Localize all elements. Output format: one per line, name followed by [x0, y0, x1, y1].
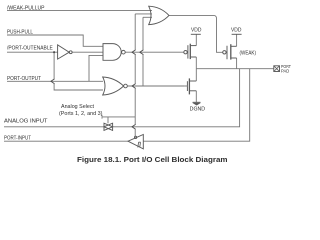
nor gate U3 output bubble — [124, 84, 128, 88]
svg-text:VDD: VDD — [231, 28, 242, 34]
node bubble at schmitt input from V1 — [134, 136, 136, 138]
wire weak PMOS Q2 drain to pad rail — [236, 58, 238, 69]
schmitt buffer U5 hysteresis glyph — [138, 142, 141, 147]
hop chevron V1 over NAND output — [132, 50, 136, 55]
analog switch S1 left triangle — [104, 123, 113, 130]
wire /PORT-OUTENABLE to inverter input — [7, 51, 58, 53]
transistor Q2 gate bubble — [223, 51, 226, 54]
hop chevron outenable-branch over PORT-OUTPUT — [51, 79, 55, 84]
transistor Q3 channel bar — [188, 78, 190, 94]
wire PMOS Q1 drain to pad rail — [195, 57, 197, 69]
transistor Q2 channel bar — [230, 44, 232, 59]
or gate U4 body — [149, 6, 169, 24]
wire PUSH-PULL to NAND input 1 — [7, 35, 103, 46]
wire node pad-feedback vertical V1 to OR gate middle input — [135, 13, 152, 15]
wire pad feedback B down to analog line — [113, 69, 240, 127]
wire NAND output to PMOS gate — [125, 51, 184, 53]
wire PORT-OUTPUT branch up to NAND input 3 — [89, 55, 103, 81]
transistor Q2 drain stub — [231, 57, 237, 59]
wire pad feedback A down to schmitt input — [143, 69, 249, 142]
transistor Q1 drain stub — [190, 56, 196, 58]
svg-text:PORT-OUTPUT: PORT-OUTPUT — [7, 76, 41, 82]
svg-text:/PORT-OUTENABLE: /PORT-OUTENABLE — [7, 45, 53, 51]
nand gate U2 body — [103, 44, 121, 61]
schmitt buffer U5 triangle — [128, 135, 143, 149]
wire schmitt output to PORT-INPUT — [4, 140, 128, 142]
ground DGND bar — [193, 101, 201, 103]
power VDD rail of Q2 — [232, 33, 242, 35]
transistor Q2 gate bar — [226, 46, 228, 59]
wire NMOS Q3 source down to DGND — [195, 91, 197, 103]
transistor Q1 gate bubble — [184, 51, 187, 54]
hop chevron V1 over NOR output — [132, 84, 136, 89]
svg-text:VDD: VDD — [191, 28, 202, 34]
pad symbol X — [274, 66, 280, 72]
transistor Q3 gate bar — [186, 81, 188, 91]
analog switch S1 right triangle — [104, 123, 113, 130]
svg-text:DGND: DGND — [190, 106, 206, 112]
svg-text:/WEAK-PULLUP: /WEAK-PULLUP — [7, 5, 45, 11]
wire analog select control line — [102, 116, 135, 118]
junction dot at outenable branch — [53, 51, 55, 53]
wire analog switch control drop — [107, 117, 109, 123]
svg-text:PAD: PAD — [281, 68, 290, 73]
wire NOR output branch V2 up to OR gate bottom input — [143, 16, 152, 18]
wire ANALOG INPUT to analog switch — [4, 126, 104, 128]
junction tick at analog select label — [101, 115, 103, 119]
wire VDD lead of PMOS Q1 — [195, 34, 197, 45]
wire NOR output to NMOS gate — [127, 85, 185, 87]
wire PORT-OUTPUT to NOR input 1 — [7, 80, 103, 82]
svg-text:PORT-INPUT: PORT-INPUT — [4, 135, 31, 141]
transistor Q3 source stub — [189, 90, 196, 92]
wire /PORT-OUTENABLE branch down to NOR input 2 — [53, 52, 55, 79]
wire NMOS Q3 gate lead — [185, 85, 188, 87]
transistor Q3 drain stub — [189, 80, 196, 82]
svg-text:PUSH-PULL: PUSH-PULL — [7, 30, 33, 36]
wire pad rail to PORT PAD — [196, 68, 273, 70]
ground DGND triangle — [194, 103, 200, 105]
inverter U1 output bubble — [69, 51, 72, 54]
wire OR output to weak PMOS gate — [169, 15, 223, 52]
transistor Q2 source stub — [231, 45, 237, 47]
transistor Q1 gate bar — [187, 45, 189, 58]
pad symbol box — [274, 66, 280, 72]
inverter U1 triangle — [58, 45, 70, 59]
hop chevron V1 over analog line — [132, 124, 136, 129]
svg-text:ANALOG INPUT: ANALOG INPUT — [4, 119, 48, 125]
transistor Q1 source stub — [190, 45, 196, 47]
wire inverter output to NAND input 2 — [72, 51, 103, 53]
svg-text:Analog Select: Analog Select — [61, 104, 95, 110]
svg-text:(Ports 1, 2, and 3): (Ports 1, 2, and 3) — [59, 111, 103, 117]
wire /WEAK-PULLUP to OR gate top input — [7, 9, 152, 11]
nand gate U2 output bubble — [122, 50, 126, 54]
power VDD rail of Q1 — [191, 33, 201, 35]
svg-text:(WEAK): (WEAK) — [240, 51, 257, 57]
transistor Q1 channel bar — [189, 44, 191, 59]
hop chevron V2 over NAND output — [140, 50, 144, 55]
wire NMOS Q3 drain up to pad rail — [195, 69, 197, 81]
nor gate U3 body — [103, 77, 124, 95]
wire VDD lead of weak PMOS Q2 — [236, 34, 238, 46]
svg-text:Figure 18.1. Port I/O Cell Blo: Figure 18.1. Port I/O Cell Block Diagram — [77, 155, 228, 164]
